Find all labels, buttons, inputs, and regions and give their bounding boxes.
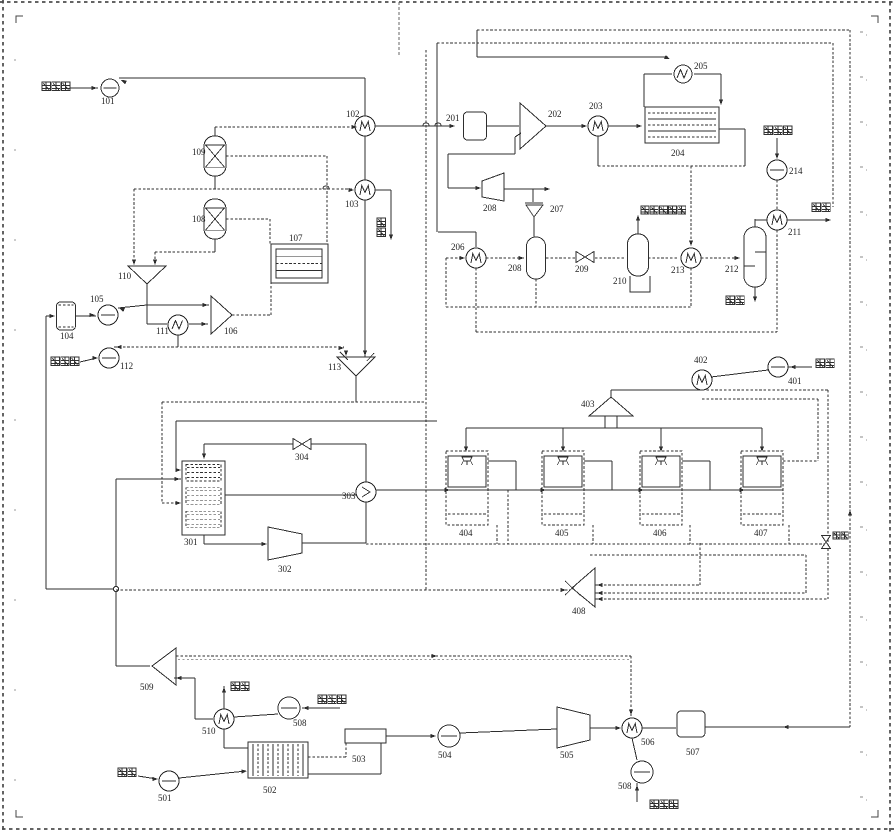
svg-text:113: 113	[328, 362, 342, 372]
svg-text:509: 509	[140, 682, 154, 692]
svg-text:501: 501	[158, 793, 172, 803]
svg-text:504: 504	[438, 750, 452, 760]
svg-text:506: 506	[641, 737, 655, 747]
svg-text:407: 407	[754, 528, 768, 538]
svg-text:508: 508	[618, 781, 632, 791]
svg-text:507: 507	[686, 747, 700, 757]
svg-text:101: 101	[101, 96, 115, 106]
svg-text:208: 208	[483, 203, 497, 213]
svg-text:214: 214	[789, 166, 803, 176]
svg-text:401: 401	[788, 376, 802, 386]
svg-text:206: 206	[451, 242, 465, 252]
svg-text:213: 213	[671, 265, 685, 275]
svg-text:110: 110	[118, 271, 132, 281]
svg-text:203: 203	[589, 101, 603, 111]
svg-text:508: 508	[293, 718, 307, 728]
svg-text:111: 111	[156, 326, 169, 336]
svg-text:207: 207	[550, 204, 564, 214]
svg-text:202: 202	[548, 109, 562, 119]
svg-text:212: 212	[725, 264, 739, 274]
svg-text:301: 301	[184, 537, 198, 547]
svg-text:109: 109	[192, 147, 206, 157]
svg-text:107: 107	[289, 233, 303, 243]
svg-text:403: 403	[581, 399, 595, 409]
svg-text:205: 205	[694, 61, 708, 71]
svg-text:112: 112	[120, 361, 133, 371]
svg-text:404: 404	[459, 528, 473, 538]
svg-text:505: 505	[560, 750, 574, 760]
svg-text:108: 108	[192, 214, 206, 224]
svg-text:208: 208	[508, 263, 522, 273]
svg-text:303: 303	[342, 491, 356, 501]
svg-text:209: 209	[575, 264, 589, 274]
svg-text:211: 211	[788, 227, 801, 237]
svg-text:105: 105	[90, 294, 104, 304]
svg-text:102: 102	[346, 109, 360, 119]
svg-text:210: 210	[613, 276, 627, 286]
svg-text:503: 503	[352, 754, 366, 764]
svg-text:405: 405	[555, 528, 569, 538]
svg-text:104: 104	[60, 331, 74, 341]
svg-text:304: 304	[295, 452, 309, 462]
svg-text:406: 406	[653, 528, 667, 538]
svg-text:106: 106	[224, 326, 238, 336]
svg-text:302: 302	[278, 564, 292, 574]
svg-text:408: 408	[572, 606, 586, 616]
svg-text:402: 402	[694, 355, 708, 365]
svg-text:103: 103	[345, 199, 359, 209]
svg-text:204: 204	[671, 148, 685, 158]
svg-text:201: 201	[446, 113, 460, 123]
svg-text:510: 510	[202, 726, 216, 736]
svg-text:502: 502	[263, 785, 277, 795]
